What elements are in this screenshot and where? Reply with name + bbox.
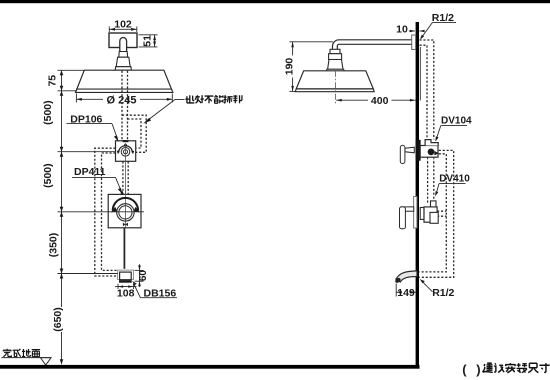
svg-text:): ) bbox=[476, 362, 480, 377]
extension line cone top bbox=[58, 69, 85, 71]
note leader 此处不能拆卸 bbox=[146, 100, 185, 122]
dim Ø245 bbox=[76, 94, 172, 103]
valve DP106 bbox=[116, 140, 136, 161]
shower head cone (side view) bbox=[296, 71, 373, 89]
stem base flange bbox=[115, 67, 131, 71]
lower right block bbox=[430, 212, 438, 223]
bath spout bbox=[396, 271, 417, 282]
svg-text:R1/2: R1/2 bbox=[432, 287, 454, 299]
supply pipe dashed from shower head to DP106 bbox=[122, 71, 146, 153]
ceiling plate bbox=[109, 33, 137, 48]
valve DV410 bbox=[400, 197, 439, 229]
stem ball joint bbox=[119, 52, 128, 58]
svg-text:51: 51 bbox=[142, 35, 154, 47]
dim 102 bbox=[109, 27, 137, 33]
body top step bbox=[425, 140, 438, 146]
svg-text:DV410: DV410 bbox=[439, 173, 470, 184]
dim 10 bbox=[409, 30, 425, 32]
outlet dashes below bbox=[427, 157, 429, 161]
dim 400 extension line along wall bbox=[419, 47, 421, 100]
floor line bbox=[0, 365, 420, 369]
svg-text:75: 75 bbox=[46, 75, 58, 87]
arm connector bbox=[329, 54, 342, 60]
pipe DP106 to DP411 dashed bbox=[123, 162, 128, 195]
wall flange (top) bbox=[412, 35, 416, 50]
body bbox=[420, 146, 438, 158]
port circle bbox=[428, 149, 435, 156]
right port arrow bbox=[434, 151, 438, 155]
svg-text:60: 60 bbox=[138, 270, 149, 282]
shower stem bbox=[120, 38, 127, 52]
dim 149 bbox=[396, 284, 415, 297]
escutcheon on wall bbox=[416, 140, 421, 161]
left dashed pipe to DB156 bbox=[95, 148, 118, 276]
shower head rim (side view) bbox=[295, 89, 374, 92]
handle stem bbox=[405, 147, 414, 153]
handle lever bbox=[400, 207, 406, 229]
pipe DP411 to DB156 solid bbox=[123, 228, 125, 269]
dim 400 bbox=[336, 99, 415, 101]
center line bbox=[125, 143, 127, 194]
dim 190 bbox=[290, 42, 334, 92]
svg-text:400: 400 bbox=[371, 95, 389, 107]
svg-text:(650): (650) bbox=[52, 307, 64, 332]
valve body bbox=[424, 207, 437, 222]
left dimension column line bbox=[58, 70, 145, 364]
shower arm (side view) bbox=[333, 40, 412, 50]
svg-text:(500): (500) bbox=[42, 163, 54, 188]
handle top bbox=[401, 207, 414, 211]
svg-text:(: ( bbox=[462, 362, 467, 377]
pipe behind wall dashed (top elbow) bbox=[420, 40, 434, 139]
top nub bbox=[431, 201, 437, 207]
svg-text:(350): (350) bbox=[48, 233, 60, 258]
right dashed pipe to spout bbox=[419, 150, 454, 277]
outlet DB156 bbox=[118, 270, 134, 283]
svg-text:DV104: DV104 bbox=[441, 115, 472, 126]
svg-text:(500): (500) bbox=[42, 100, 54, 125]
arm nut bbox=[330, 49, 340, 53]
center line (side view) bbox=[335, 71, 337, 105]
valve DV104 bbox=[400, 140, 439, 164]
wall line bbox=[416, 22, 419, 367]
extension line DP106 center bbox=[58, 151, 116, 153]
svg-text:10: 10 bbox=[396, 24, 408, 36]
pipe DV104 to DV410 dashed bbox=[428, 162, 434, 204]
finished floor label 完成地面 bbox=[3, 349, 40, 357]
dim 60 bbox=[135, 264, 144, 287]
handle knob bbox=[400, 145, 405, 163]
svg-text:190: 190 bbox=[283, 58, 295, 76]
valve flange bbox=[420, 208, 424, 220]
dim 51 bbox=[139, 35, 158, 47]
shower head rim bbox=[75, 89, 172, 92]
floor level triangle bbox=[41, 358, 52, 365]
dim 108 bbox=[115, 284, 137, 289]
stem connector nut bbox=[116, 57, 130, 66]
svg-text:102: 102 bbox=[114, 19, 132, 31]
svg-text:Ø 245: Ø 245 bbox=[107, 94, 137, 106]
top border bar bbox=[0, 0, 550, 3]
escutcheon plate bbox=[414, 197, 417, 229]
svg-text:108: 108 bbox=[117, 288, 135, 300]
extension line cone bottom bbox=[58, 90, 78, 92]
note text 此处不能拆卸 bbox=[185, 95, 242, 103]
dimension arrows on column bbox=[60, 70, 64, 364]
valve DP411 bbox=[108, 191, 141, 228]
svg-text:149: 149 bbox=[397, 287, 415, 299]
shower head cone (front view) bbox=[77, 70, 172, 89]
extension line DB156 center bbox=[58, 273, 118, 275]
extension line DP411 center bbox=[58, 211, 145, 213]
arm base flange bbox=[327, 69, 345, 71]
arm cone adapter bbox=[328, 60, 343, 70]
